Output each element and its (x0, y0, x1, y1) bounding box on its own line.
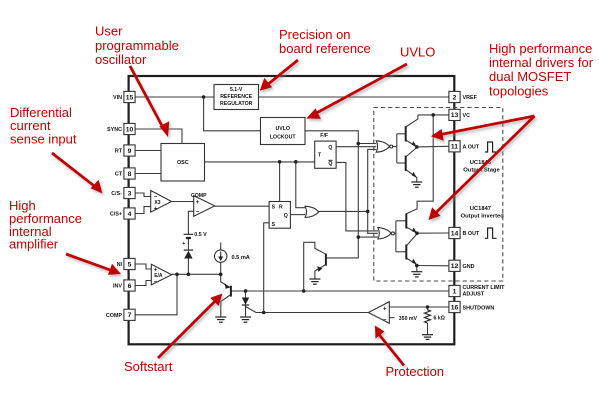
OR gate PWM (305, 206, 319, 217)
pin 12 GND (449, 260, 460, 271)
node VC rail branch (431, 113, 435, 117)
wire node to softstart transistor emitter (221, 274, 231, 288)
output stage A: transistor Qa1 (405, 126, 407, 141)
wire COMP pin 7 feedback to E/A output (135, 274, 177, 315)
resistor 6 kOhm (425, 310, 431, 323)
svg-text:User: User (95, 24, 123, 39)
output stage B: transistor Qb2 (405, 245, 407, 260)
pin 6 INV (124, 280, 135, 291)
ground diode D2 (240, 317, 251, 322)
svg-text:REFERENCE: REFERENCE (220, 94, 253, 100)
svg-text:sense input: sense input (10, 132, 77, 147)
resistor 6k bottom lead (427, 323, 429, 335)
svg-text:CURRENT LIMIT: CURRENT LIMIT (463, 285, 506, 291)
wire current limit up to UVLO transistor collector (304, 242, 326, 291)
ground Qa2 emitter (411, 182, 422, 187)
waveform pulse A OUT (485, 142, 496, 152)
wire VC rail drop to B stage collector (406, 115, 433, 214)
ground 6k resistor (422, 335, 433, 340)
svg-text:Q: Q (328, 161, 332, 167)
pin 11 A OUT (449, 141, 460, 152)
current source 0.5 mA (215, 250, 227, 262)
pin 1 CLA (449, 285, 460, 296)
wire OR output (319, 210, 368, 212)
arrow to current sense pins (52, 153, 103, 194)
red arrows (52, 60, 535, 366)
node osc to OR gate (294, 160, 298, 164)
svg-text:+: + (182, 241, 185, 247)
resistor 6k top lead (427, 307, 429, 310)
PWM latch box (269, 202, 290, 229)
ground softstart collector (215, 317, 226, 322)
svg-text:−: − (154, 280, 158, 286)
pin 8 CT (124, 168, 135, 179)
wire OSC node down to OR gate input (296, 162, 305, 208)
svg-text:UVLO: UVLO (400, 45, 435, 60)
wire D2 to its ground (245, 305, 247, 317)
svg-text:+: + (383, 306, 387, 312)
svg-text:8: 8 (128, 171, 132, 178)
wire latch Q to OR gate (290, 214, 305, 216)
error amplifier E/A (151, 264, 171, 285)
wire INV pin 6 to E/A - (135, 281, 151, 286)
svg-text:GND: GND (463, 264, 475, 270)
svg-text:OSC: OSC (177, 160, 189, 166)
svg-text:+: + (154, 206, 158, 212)
svg-text:−: − (383, 317, 387, 323)
wire C/S+ pin 4 to X3 noninverting input (135, 207, 151, 214)
svg-text:programmable: programmable (95, 38, 179, 53)
wire 0.5mA source to node (220, 262, 222, 274)
svg-text:A OUT: A OUT (463, 145, 480, 151)
arrow emitter Qb1 (412, 227, 417, 233)
wire diode D2 branch (245, 291, 247, 298)
right pin boxes (449, 91, 460, 312)
svg-text:COMP: COMP (106, 313, 123, 319)
svg-text:COMP: COMP (191, 193, 207, 199)
svg-text:C/S+: C/S+ (110, 212, 122, 218)
svg-text:Precision on: Precision on (279, 27, 351, 42)
svg-text:topologies: topologies (489, 83, 549, 98)
wire softstart collector to ground (221, 295, 231, 317)
wire UVLO branch to NOR B (358, 236, 378, 238)
wire base rail A (396, 134, 398, 163)
svg-text:12: 12 (451, 263, 459, 270)
node GND rail (415, 264, 419, 268)
node E/A to softstart (219, 273, 223, 277)
wire base rail B (395, 221, 397, 252)
arrow emitter Qa2 (412, 172, 417, 178)
wire current limit adjust line (231, 290, 449, 292)
svg-text:1: 1 (453, 288, 457, 295)
wire GND rail to pin 12 (417, 265, 449, 267)
node UVLO to NOR B (357, 235, 361, 239)
wire X3 output to PWM comparator (172, 201, 194, 203)
wire F/F Qbar to NOR B (336, 162, 378, 231)
wire Qb2 collector to B out node (406, 234, 417, 246)
softstart transistor (PNP) (225, 283, 231, 296)
svg-text:S: S (272, 222, 276, 228)
svg-text:9: 9 (128, 148, 132, 155)
wire E/A output (172, 273, 221, 275)
svg-text:SYNC: SYNC (107, 127, 122, 133)
wire Qa2 collector to A out node (406, 148, 417, 158)
svg-text:F/F: F/F (320, 133, 328, 139)
wire UVLO output (305, 131, 358, 258)
wire A OUT (417, 145, 449, 148)
wire OR node up to NOR A (368, 149, 377, 211)
wire shutdown comparator + input to pin 16 (389, 306, 449, 308)
svg-text:16: 16 (451, 304, 459, 311)
wire battery to diode (187, 238, 189, 250)
wire Qa1 emitter to A out node (406, 140, 417, 147)
wire NI pin 5 to E/A + (135, 264, 151, 269)
wire VC rail to pin 13 (418, 114, 449, 116)
left pin labels (106, 95, 123, 319)
node A OUT (415, 145, 419, 149)
pin 2 VREF (449, 91, 460, 102)
NOR gate A (376, 141, 393, 152)
svg-text:internal drivers for: internal drivers for (489, 55, 594, 70)
node current limit branch (302, 289, 306, 293)
wire shutdown comparator output line (256, 312, 368, 314)
wire OSC node down to latch R input (279, 162, 281, 202)
wire UVLO branch to NOR A (358, 143, 376, 145)
wire comparator inverting input to 0.5V battery (188, 211, 193, 234)
node B OUT (415, 231, 419, 235)
output stage A: transistor Qa2 (405, 156, 407, 171)
svg-text:ADJUST: ADJUST (463, 291, 485, 297)
svg-text:E/A: E/A (154, 273, 163, 279)
wire F/F Q to NOR A (336, 146, 376, 148)
svg-text:5: 5 (128, 261, 132, 268)
svg-text:14: 14 (451, 230, 459, 237)
svg-text:SHUTDOWN: SHUTDOWN (463, 305, 495, 311)
svg-text:CT: CT (115, 172, 123, 178)
svg-text:7: 7 (128, 312, 132, 319)
svg-text:0.5 V: 0.5 V (194, 232, 207, 238)
svg-text:UC1847: UC1847 (470, 206, 491, 212)
svg-text:NI: NI (117, 262, 123, 268)
svg-text:Output Inverted: Output Inverted (461, 213, 505, 219)
pin 4 C/S+ (124, 208, 135, 219)
svg-text:−: − (196, 209, 200, 215)
wire OR node down to NOR B (368, 211, 378, 233)
arrow emitter Qa1 (412, 141, 417, 147)
wire node up to latch second S input (264, 223, 269, 313)
ground Qb2 emitter (411, 272, 422, 277)
svg-text:Q: Q (328, 145, 332, 151)
svg-text:INV: INV (113, 284, 122, 290)
wire NOR B output to base rail (395, 232, 396, 234)
svg-text:3: 3 (128, 190, 132, 197)
arrow to UVLO lockout (306, 64, 407, 119)
wire B OUT (417, 232, 449, 234)
svg-text:15: 15 (126, 94, 134, 101)
5.1V reference regulator box (214, 85, 259, 110)
F/F toggle flip-flop box (315, 133, 336, 168)
node OR output branch (366, 210, 370, 214)
svg-text:X3: X3 (154, 200, 160, 206)
pin 7 COMP (124, 309, 135, 320)
node shutdown resistor (426, 305, 430, 309)
shutdown comparator 350 mV (368, 302, 389, 324)
wire supply stub to 0.5mA source (220, 242, 222, 250)
ground UVLO transistor (309, 279, 320, 284)
wire VIN node down to UVLO lockout input (204, 97, 261, 131)
wire Qb2 emitter to gnd rail (406, 258, 417, 266)
arrow emitter Qb2 (412, 259, 417, 265)
svg-text:10: 10 (126, 126, 134, 133)
diode D1 (battery to E/A node) (184, 250, 193, 258)
pin 14 B OUT (449, 227, 460, 238)
wire SYNC to OSC top (135, 129, 182, 144)
svg-text:UVLO: UVLO (275, 126, 289, 132)
svg-text:S: S (272, 204, 276, 210)
right pin labels (463, 95, 506, 311)
wire CT to OSC (135, 173, 161, 175)
wire UVLO transistor emitter to ground (315, 265, 326, 279)
wire VIN to reference regulator (135, 96, 214, 98)
pin 3 C/S- (124, 187, 135, 198)
node UVLO to NOR A (357, 142, 361, 146)
svg-text:2: 2 (453, 94, 457, 101)
svg-text:REGULATOR: REGULATOR (220, 101, 253, 107)
oscillator OSC box (161, 144, 205, 182)
node E/A feedback (175, 273, 179, 277)
svg-text:board reference: board reference (279, 41, 371, 56)
svg-text:B OUT: B OUT (463, 231, 480, 237)
node shutdown to latch (262, 311, 266, 315)
node osc to latch R (278, 160, 282, 164)
node VIN junction (202, 95, 206, 99)
svg-text:amplifier: amplifier (9, 237, 59, 252)
svg-text:6: 6 (128, 283, 132, 290)
arrow to output stage A (431, 116, 535, 141)
pin 10 SYNC (124, 123, 135, 134)
wire Qb1 emitter to B out node (406, 227, 417, 233)
pin 15 VIN (124, 91, 135, 102)
node softstart base diode (244, 289, 248, 293)
svg-text:+: + (196, 200, 200, 206)
pin 13 VC (449, 109, 460, 120)
IC outline frame (129, 76, 455, 344)
arrow to error amplifier (66, 254, 121, 275)
wire OSC output to F/F T input (205, 161, 315, 163)
svg-text:dual MOSFET: dual MOSFET (489, 69, 571, 84)
wire reference regulator to VREF pin 2 (259, 96, 450, 98)
svg-text:6 kΩ: 6 kΩ (434, 316, 445, 322)
svg-text:VIN: VIN (113, 95, 122, 101)
wire C/S- pin 3 to X3 inverting input (135, 193, 151, 197)
wire diode to E/A output node (187, 259, 189, 275)
wire 350mV stub (389, 317, 394, 319)
UVLO lockout box (261, 118, 306, 145)
node E/A to diode (187, 273, 191, 277)
wire RT to OSC (135, 150, 161, 152)
wire diode D2 to shutdown line (246, 305, 257, 313)
battery 0.5 V (184, 234, 194, 238)
svg-text:11: 11 (451, 144, 458, 151)
NOR gate B (378, 228, 395, 239)
svg-text:High performance: High performance (489, 41, 592, 56)
svg-text:R: R (279, 204, 283, 210)
svg-text:Q: Q (284, 213, 288, 219)
arrow to output stage B (429, 116, 535, 220)
wire Qa1 collector to VC rail (406, 115, 418, 127)
svg-text:RT: RT (115, 149, 123, 155)
PWM comparator COMP (191, 193, 215, 216)
pin 9 RT (124, 145, 135, 156)
pin 16 SHUTDOWN (449, 301, 460, 312)
UVLO shutdown transistor (317, 254, 326, 272)
svg-text:4: 4 (128, 211, 132, 218)
svg-text:Protection: Protection (386, 364, 445, 379)
svg-text:5.1-V: 5.1-V (230, 87, 243, 93)
pin 5 NI (124, 258, 135, 269)
svg-text:VREF: VREF (463, 95, 478, 101)
output stage B: transistor Qb1 (405, 214, 407, 229)
svg-text:Softstart: Softstart (124, 359, 173, 374)
waveform pulse B OUT (485, 228, 497, 238)
arrow to OSC (130, 66, 169, 137)
arrow to protection comparator (375, 326, 404, 366)
left pin boxes (124, 91, 135, 320)
svg-text:oscillator: oscillator (95, 52, 147, 67)
svg-text:13: 13 (451, 112, 459, 119)
svg-text:VC: VC (463, 113, 471, 119)
svg-text:C/S-: C/S- (111, 191, 122, 197)
wire PWM comparator output to latch S (215, 205, 269, 207)
svg-text:350 mV: 350 mV (399, 316, 418, 322)
wire Qa2 emitter to ground (406, 170, 417, 182)
wire NOR A output to base rail (393, 146, 397, 148)
amplifier X3 current sense (151, 191, 172, 213)
arrow to reference regulator (260, 60, 298, 91)
svg-text:LOCKOUT: LOCKOUT (270, 134, 296, 140)
svg-text:0.5 mA: 0.5 mA (232, 255, 250, 261)
arrow to softstart transistor (158, 294, 223, 359)
dashed output-stage box (374, 108, 503, 282)
diode D2 at softstart base (242, 298, 249, 306)
